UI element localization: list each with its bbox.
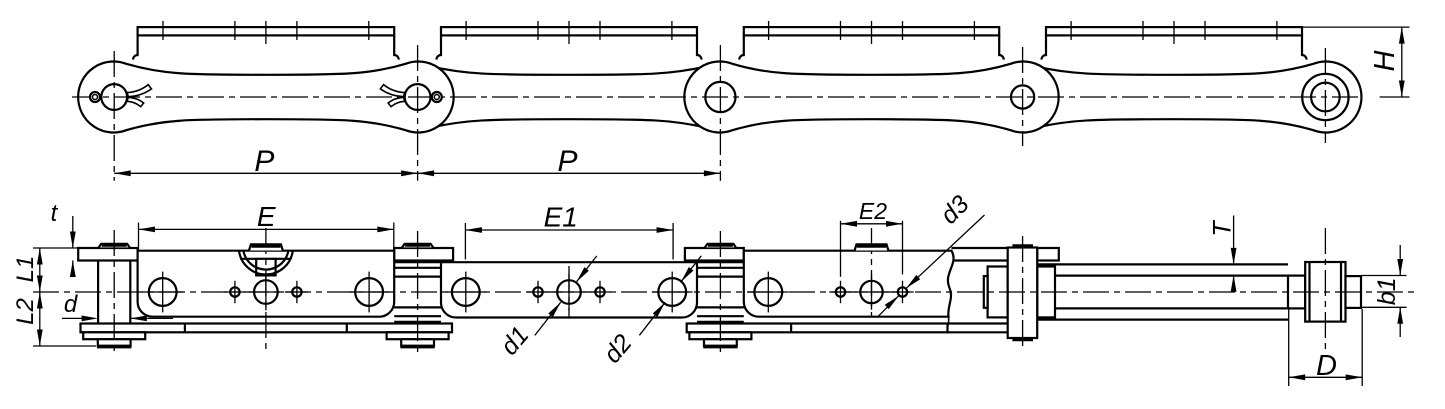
small hole d3 right (link 2) <box>595 287 604 296</box>
crosshair of hole at x=872 <box>871 274 873 309</box>
svg-text:E: E <box>257 201 276 232</box>
arrowheads E2 <box>841 221 858 227</box>
arrowheads E1 <box>465 227 482 233</box>
attachment centerline link 2 (plan) <box>568 266 570 318</box>
pin P5 pin (side view) <box>1311 83 1340 112</box>
hole d2 right of link (link 2) <box>658 278 686 306</box>
pin P4 end caps <box>1012 244 1033 248</box>
pin P5 bushing (side view) <box>1302 74 1348 120</box>
small hole d3 right (link 1) <box>292 287 301 296</box>
pin P2 (side view) <box>405 84 431 110</box>
hole d2 right of link (link 1) <box>355 278 383 306</box>
center hole d1 (link 1) <box>254 280 278 304</box>
cotter pin at P1 <box>90 92 100 102</box>
svg-text:d: d <box>64 291 78 318</box>
dimension line D <box>1289 376 1363 378</box>
far plate joint line c <box>790 324 792 333</box>
extension lines E1 <box>464 223 466 260</box>
bolt head link 3 (bold) <box>855 244 889 250</box>
crosshair of hole at x=768 <box>767 272 769 313</box>
arrowheads d1 <box>577 267 589 282</box>
hole d2 left of link (link 2) <box>452 278 480 306</box>
arrowheads E <box>139 227 156 233</box>
roller P5 (plan) <box>1305 262 1345 322</box>
pin P3 vertical centerline (top view) <box>719 45 721 181</box>
crosshair of hole at x=466 <box>465 272 467 313</box>
arrowheads P <box>114 170 131 176</box>
horizontal centerline (plan view) <box>33 291 1418 293</box>
far plate joint line b <box>346 324 348 333</box>
bushing right of roller P4 <box>1037 267 1055 318</box>
crosshair of hole at x=672 <box>671 272 673 313</box>
pin P1 (side view) <box>101 84 127 110</box>
link plate L4 (inner, side view) <box>990 61 1362 132</box>
extension line centerline (H) <box>1380 96 1410 98</box>
pin P2 vertical centerline (plan) <box>417 231 419 353</box>
pin P3 bushing (side view) <box>705 82 735 112</box>
arrowheads d3 <box>906 275 920 288</box>
extension lines b1 <box>1361 275 1407 277</box>
link plate L2 (inner, side view) <box>385 64 753 130</box>
inner link bushing lines at P2 (plan) <box>394 261 441 263</box>
countersink chord line <box>240 258 256 260</box>
crosshair of hole at x=235 <box>234 281 236 303</box>
hole d2 left of link (link 3) <box>754 278 782 306</box>
far side plate band (link 3) <box>687 324 948 333</box>
extension lines E2 <box>840 221 842 277</box>
pin P2 vertical centerline (top view) <box>417 45 419 181</box>
attachment centerline link 3 (plan) <box>871 228 873 317</box>
dimension line H <box>1401 27 1403 97</box>
crosshair of hole at x=266 <box>265 274 267 311</box>
small hole d3 left (link 3) <box>836 287 845 296</box>
pin P4 vertical centerline (top view) <box>1022 47 1024 146</box>
svg-text:L2: L2 <box>12 298 39 325</box>
extension line top (L1) <box>33 247 80 249</box>
washer P5 <box>1346 276 1362 308</box>
pin P5 vertical centerline (plan) <box>1324 228 1326 351</box>
center hole d1 (link 3) <box>860 281 882 303</box>
small hole d3 left (link 2) <box>533 287 542 296</box>
extension line bottom (L2) <box>33 345 96 347</box>
hole tick marks on strip 3 <box>768 21 770 40</box>
attachment plate link 1 (plan) <box>138 251 395 317</box>
pin P5 vertical centerline (top view) <box>1324 48 1326 143</box>
attachment plate link 3 (plan, cut by break) <box>744 251 954 317</box>
near side plate band (left end) <box>78 248 137 261</box>
top plate strip 1 (side view) <box>138 27 395 35</box>
link plate L3 (outer, side view) <box>684 62 1058 133</box>
near side plate band (pin P2) <box>394 248 453 261</box>
attachment centerline link 1 (plan) <box>265 228 267 351</box>
extension lines D <box>1288 309 1290 386</box>
crosshair of hole at x=297 <box>296 281 298 303</box>
crosshair of hole at x=569 <box>568 274 570 311</box>
pin P3 vertical centerline (plan) <box>719 231 721 353</box>
bushing left of roller P4 <box>988 267 1008 318</box>
link plate L1 (outer, side view) <box>78 61 454 132</box>
svg-text:L1: L1 <box>12 256 39 283</box>
arrowheads d <box>82 316 99 322</box>
hole tick marks on strip 2 <box>465 21 467 40</box>
extension lines E <box>138 223 140 250</box>
dimension t lines <box>72 216 74 248</box>
far plate joint line a <box>184 324 186 333</box>
leader d2 <box>681 256 701 282</box>
small hole d3 right (link 3) <box>898 287 907 296</box>
dimension line E2 <box>841 223 903 225</box>
svg-text:P: P <box>254 145 274 178</box>
extension line top (H) <box>1302 26 1410 28</box>
crosshair of hole at x=902 <box>902 281 904 303</box>
leader d1 <box>577 256 597 282</box>
near side plate band (pin P4 right) <box>1037 248 1059 261</box>
pin P1 assembly (plan) <box>99 244 130 248</box>
horizontal centerline (top view) <box>72 96 1361 98</box>
top plate strip 4 (side view) <box>1046 27 1302 35</box>
arrowheads T <box>1231 248 1237 265</box>
arrowheads D <box>1289 374 1306 380</box>
crosshair of hole at x=369 <box>368 272 370 313</box>
bushing P5 <box>1288 276 1305 309</box>
center hole d1 (link 2) <box>557 280 581 304</box>
svg-text:D: D <box>1316 350 1337 382</box>
svg-text:b1: b1 <box>1373 277 1401 305</box>
dimension line P (pitch) <box>114 172 720 174</box>
far side plate band (break to P4 roller) <box>948 322 1008 324</box>
countersink outer arc link 1 <box>239 251 293 275</box>
countersink inner arc link 1 <box>243 251 288 270</box>
break line tail <box>947 317 948 333</box>
arrowheads H <box>1399 27 1405 43</box>
dimension line L1 <box>39 248 41 292</box>
arrowheads b1 <box>1397 259 1403 276</box>
svg-text:H: H <box>1369 50 1401 71</box>
pin P1 vertical centerline (plan) <box>113 230 115 352</box>
hole tick marks on strip 4 <box>1070 21 1072 40</box>
cotter pin at P2 <box>432 92 442 102</box>
pin P2 assembly (plan) <box>402 244 433 248</box>
far side plate band (link 1) <box>81 324 453 333</box>
top plate strip 2 (side view) <box>441 27 697 35</box>
inner link bushing lines at P3 (plan) <box>697 261 744 263</box>
small hole d3 left (link 1) <box>230 287 239 296</box>
roller P4 (plan) <box>1008 248 1037 339</box>
pin P3 assembly (plan) <box>705 244 736 248</box>
top plate strip 3 (side view) <box>744 27 999 35</box>
pin P4 bushing (side view) <box>1011 85 1034 108</box>
roller P5 chamfer lines <box>1308 262 1310 322</box>
inner plate band far (bare chain) <box>1037 307 1288 309</box>
svg-text:E2: E2 <box>859 198 887 224</box>
near side plate band (pin P3) <box>685 248 744 261</box>
leader d3 <box>906 215 984 288</box>
pin P1 vertical centerline (top view) <box>113 51 115 181</box>
attachment plate link 2 (plan) <box>441 262 697 317</box>
svg-text:E1: E1 <box>544 202 578 233</box>
dimension line E1 <box>465 229 673 231</box>
crosshair of hole at x=538 <box>537 281 539 303</box>
dimension line L2 <box>39 292 41 346</box>
svg-text:P: P <box>557 145 577 178</box>
svg-text:T: T <box>1209 220 1237 237</box>
dimension d lines <box>62 317 82 319</box>
arrowheads L2 <box>37 292 43 309</box>
inner plate band near (bare chain) <box>1037 263 1288 265</box>
dimension T lines <box>1233 216 1235 265</box>
near side plate band (break to P4 roller) <box>952 247 1008 249</box>
crosshair of hole at x=163 <box>162 272 164 313</box>
hole d2 left of link (link 1) <box>149 278 177 306</box>
arrowheads t <box>70 232 76 249</box>
bolt head link 1 (bold) <box>249 244 283 250</box>
pin P4 vertical centerline (plan) <box>1022 236 1024 349</box>
crosshair of hole at x=600 <box>599 281 601 303</box>
arrowheads d2 <box>681 267 693 282</box>
dimension line E <box>139 228 394 230</box>
dimension b1 lines <box>1399 245 1401 276</box>
arrowheads L1 <box>37 248 43 265</box>
crosshair of hole at x=840 <box>840 281 842 303</box>
bolt square neck link 1 <box>256 259 275 276</box>
hole tick marks on strip 1 <box>162 21 164 40</box>
